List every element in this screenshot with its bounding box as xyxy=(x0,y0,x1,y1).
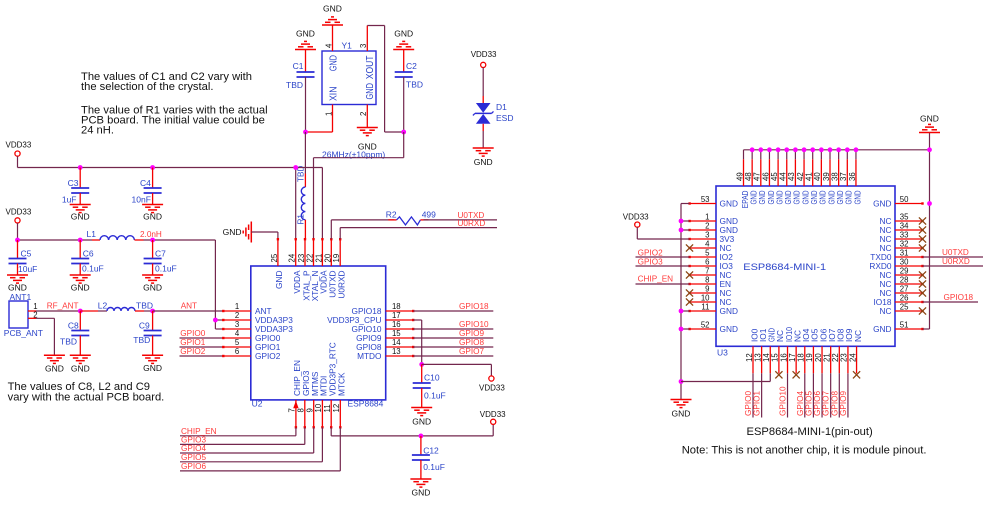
svg-text:GND: GND xyxy=(323,4,342,14)
svg-text:U3: U3 xyxy=(717,348,728,358)
svg-text:GND: GND xyxy=(296,29,315,39)
svg-text:GND: GND xyxy=(71,212,90,222)
svg-text:4: 4 xyxy=(705,239,710,248)
svg-text:4: 4 xyxy=(324,43,333,48)
svg-text:GPIO10: GPIO10 xyxy=(459,320,489,329)
svg-text:28: 28 xyxy=(900,275,909,284)
svg-text:GND: GND xyxy=(720,306,738,316)
svg-text:24: 24 xyxy=(848,353,857,362)
svg-text:47: 47 xyxy=(753,172,762,181)
svg-text:1: 1 xyxy=(705,212,709,221)
svg-text:GPIO2: GPIO2 xyxy=(255,351,281,361)
svg-text:10nF: 10nF xyxy=(132,195,151,205)
svg-text:43: 43 xyxy=(787,172,796,181)
svg-text:GPIO2: GPIO2 xyxy=(638,248,663,257)
svg-text:15: 15 xyxy=(392,329,401,338)
svg-text:13: 13 xyxy=(392,347,401,356)
svg-text:32: 32 xyxy=(900,239,909,248)
svg-text:GND: GND xyxy=(412,417,431,427)
svg-text:XIN: XIN xyxy=(329,87,340,102)
svg-text:35: 35 xyxy=(900,212,909,221)
svg-text:22: 22 xyxy=(306,254,315,263)
svg-text:2: 2 xyxy=(235,311,239,320)
svg-text:GND: GND xyxy=(411,488,430,498)
svg-text:3: 3 xyxy=(359,44,368,48)
svg-text:42: 42 xyxy=(796,172,805,181)
svg-text:GND: GND xyxy=(920,114,939,124)
svg-text:38: 38 xyxy=(830,172,839,181)
svg-text:GND: GND xyxy=(394,29,413,39)
svg-text:C4: C4 xyxy=(140,178,151,188)
svg-text:GPIO2: GPIO2 xyxy=(180,347,205,356)
svg-text:GPIO9: GPIO9 xyxy=(839,391,848,416)
svg-text:27: 27 xyxy=(900,284,909,293)
svg-text:36: 36 xyxy=(848,172,857,181)
svg-text:VDD33: VDD33 xyxy=(6,208,32,217)
svg-text:1uF: 1uF xyxy=(62,195,77,205)
svg-text:37: 37 xyxy=(839,172,848,181)
svg-text:6: 6 xyxy=(235,347,239,356)
svg-text:ESP8684-MINI-1(pin-out): ESP8684-MINI-1(pin-out) xyxy=(747,426,873,438)
svg-text:GPIO0: GPIO0 xyxy=(180,329,205,338)
svg-text:GPIO10: GPIO10 xyxy=(779,386,788,416)
svg-text:9: 9 xyxy=(306,408,315,412)
svg-text:the selection of the crystal.: the selection of the crystal. xyxy=(81,81,213,93)
svg-text:GPIO6: GPIO6 xyxy=(181,462,206,471)
svg-text:48: 48 xyxy=(744,172,753,181)
svg-text:17: 17 xyxy=(392,311,401,320)
svg-text:10: 10 xyxy=(314,403,323,412)
svg-text:VDD33: VDD33 xyxy=(471,50,497,59)
svg-text:31: 31 xyxy=(900,248,909,257)
svg-text:GND: GND xyxy=(143,283,162,293)
svg-text:ANT: ANT xyxy=(181,302,197,311)
svg-text:U2: U2 xyxy=(252,399,263,409)
svg-text:GND: GND xyxy=(71,364,90,374)
svg-text:C7: C7 xyxy=(155,249,166,259)
svg-text:1: 1 xyxy=(324,112,333,116)
svg-text:GND: GND xyxy=(873,199,891,209)
svg-text:L2: L2 xyxy=(98,301,108,311)
svg-text:2: 2 xyxy=(705,221,709,230)
svg-text:9: 9 xyxy=(705,284,709,293)
svg-text:24: 24 xyxy=(288,253,297,262)
svg-text:6: 6 xyxy=(705,257,709,266)
svg-text:GPIO4: GPIO4 xyxy=(181,444,206,453)
svg-text:VDD33: VDD33 xyxy=(6,141,32,150)
svg-text:14: 14 xyxy=(392,338,401,347)
svg-text:GND: GND xyxy=(365,83,376,100)
svg-text:TBD: TBD xyxy=(133,335,150,345)
svg-text:TBD: TBD xyxy=(136,301,153,311)
svg-text:U0TXD: U0TXD xyxy=(942,248,969,257)
svg-text:51: 51 xyxy=(900,320,909,329)
svg-text:16: 16 xyxy=(392,320,401,329)
svg-text:33: 33 xyxy=(900,230,909,239)
svg-text:GPIO8: GPIO8 xyxy=(459,338,484,347)
svg-text:29: 29 xyxy=(900,266,909,275)
svg-text:ESP8684-MINI-1: ESP8684-MINI-1 xyxy=(743,262,826,273)
svg-text:46: 46 xyxy=(761,172,770,181)
svg-text:50: 50 xyxy=(900,195,909,204)
svg-text:GPIO9: GPIO9 xyxy=(459,329,484,338)
svg-text:GND: GND xyxy=(474,157,493,167)
svg-text:8: 8 xyxy=(297,408,306,412)
svg-text:34: 34 xyxy=(900,221,909,230)
svg-text:C10: C10 xyxy=(424,372,440,382)
svg-text:C9: C9 xyxy=(139,321,150,331)
svg-text:NC: NC xyxy=(853,330,863,342)
svg-text:3: 3 xyxy=(235,320,239,329)
svg-text:MTCK: MTCK xyxy=(337,372,347,396)
svg-text:MTDO: MTDO xyxy=(357,351,382,361)
svg-text:44: 44 xyxy=(779,172,788,181)
svg-text:C8: C8 xyxy=(68,320,79,330)
svg-text:GND: GND xyxy=(852,190,862,204)
svg-text:GND: GND xyxy=(274,270,284,288)
svg-text:vary with the actual PCB board: vary with the actual PCB board. xyxy=(8,392,165,404)
svg-text:GND: GND xyxy=(223,227,242,237)
svg-text:39: 39 xyxy=(822,172,831,181)
svg-text:RF_ANT: RF_ANT xyxy=(47,302,79,311)
svg-text:3: 3 xyxy=(705,230,709,239)
svg-text:C2: C2 xyxy=(406,61,417,71)
svg-text:R1: R1 xyxy=(297,214,306,225)
svg-text:GND: GND xyxy=(143,212,162,222)
svg-text:GPIO1: GPIO1 xyxy=(753,391,762,416)
svg-text:NC: NC xyxy=(880,306,892,316)
svg-text:TBD: TBD xyxy=(286,80,303,90)
svg-text:0.1uF: 0.1uF xyxy=(424,391,446,401)
svg-text:C5: C5 xyxy=(21,249,32,259)
svg-text:11: 11 xyxy=(323,404,332,412)
svg-text:1: 1 xyxy=(235,302,239,311)
svg-text:C1: C1 xyxy=(293,61,304,71)
svg-text:10: 10 xyxy=(701,293,710,302)
svg-text:25: 25 xyxy=(900,302,909,311)
svg-text:GPIO5: GPIO5 xyxy=(181,453,206,462)
svg-text:7: 7 xyxy=(705,266,709,275)
svg-text:25: 25 xyxy=(270,253,279,262)
svg-text:8: 8 xyxy=(705,275,709,284)
svg-text:GND: GND xyxy=(672,409,691,419)
svg-text:49: 49 xyxy=(735,172,744,181)
svg-text:24 nH.: 24 nH. xyxy=(81,125,114,137)
svg-text:U0RXD: U0RXD xyxy=(458,219,486,228)
svg-text:GPIO18: GPIO18 xyxy=(459,302,489,311)
svg-text:L1: L1 xyxy=(87,229,97,239)
svg-text:GND: GND xyxy=(71,283,90,293)
svg-text:7: 7 xyxy=(288,408,297,412)
svg-text:GPIO18: GPIO18 xyxy=(944,293,974,302)
svg-text:18: 18 xyxy=(392,302,401,311)
svg-text:PCB_ANT: PCB_ANT xyxy=(4,328,43,338)
svg-text:GND: GND xyxy=(329,55,340,71)
svg-text:D1: D1 xyxy=(496,102,507,112)
svg-text:GPIO1: GPIO1 xyxy=(180,338,205,347)
svg-text:R2: R2 xyxy=(386,210,397,220)
svg-text:GPIO3: GPIO3 xyxy=(638,257,663,266)
svg-text:10uF: 10uF xyxy=(18,264,37,274)
svg-text:VDD33: VDD33 xyxy=(623,213,649,222)
svg-text:TBD: TBD xyxy=(60,337,77,347)
svg-text:XOUT: XOUT xyxy=(365,56,376,80)
svg-text:C12: C12 xyxy=(423,446,439,456)
svg-text:0.1uF: 0.1uF xyxy=(82,264,104,274)
svg-text:41: 41 xyxy=(805,172,814,181)
svg-text:ESD: ESD xyxy=(496,113,513,123)
svg-text:C3: C3 xyxy=(68,178,79,188)
svg-text:499: 499 xyxy=(422,210,436,220)
svg-text:GND: GND xyxy=(873,324,891,334)
svg-text:45: 45 xyxy=(770,172,779,181)
svg-text:53: 53 xyxy=(701,195,710,204)
svg-text:5: 5 xyxy=(235,338,240,347)
svg-text:ESP8684: ESP8684 xyxy=(347,399,383,409)
svg-text:52: 52 xyxy=(701,320,710,329)
svg-text:12: 12 xyxy=(332,404,341,413)
svg-text:2: 2 xyxy=(359,112,368,116)
svg-text:U0RXD: U0RXD xyxy=(337,270,347,298)
svg-text:11: 11 xyxy=(701,302,709,311)
svg-text:4: 4 xyxy=(235,329,240,338)
svg-text:C6: C6 xyxy=(83,249,94,259)
svg-text:CHIP_EN: CHIP_EN xyxy=(638,275,674,284)
svg-text:GPIO7: GPIO7 xyxy=(459,347,484,356)
svg-text:5: 5 xyxy=(705,248,710,257)
svg-text:2.0nH: 2.0nH xyxy=(140,230,162,239)
svg-text:TBD: TBD xyxy=(406,80,423,90)
svg-text:20: 20 xyxy=(323,253,332,262)
svg-text:0.1uF: 0.1uF xyxy=(155,264,177,274)
svg-text:30: 30 xyxy=(900,257,909,266)
svg-text:21: 21 xyxy=(314,254,323,263)
svg-text:GND: GND xyxy=(143,363,162,373)
svg-text:19: 19 xyxy=(332,254,341,263)
svg-text:VDD33: VDD33 xyxy=(480,410,506,419)
svg-text:GND: GND xyxy=(720,199,738,209)
svg-text:GND: GND xyxy=(45,364,64,374)
svg-text:Y1: Y1 xyxy=(342,41,353,51)
svg-text:GND: GND xyxy=(720,324,738,334)
svg-text:26: 26 xyxy=(900,293,909,302)
svg-text:0.1uF: 0.1uF xyxy=(423,462,445,472)
svg-text:Note: This is not another chip: Note: This is not another chip, it is mo… xyxy=(682,445,927,457)
svg-text:VDD33: VDD33 xyxy=(479,383,505,392)
svg-text:40: 40 xyxy=(813,172,822,181)
svg-text:U0RXD: U0RXD xyxy=(942,257,970,266)
